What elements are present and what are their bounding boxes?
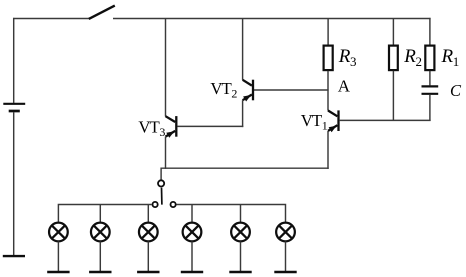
wire switch S2 pole drop [160, 168, 162, 181]
wire R1 top lead [429, 18, 431, 45]
wire lamp2 bottom lead [99, 241, 101, 271]
label VT3 [138, 118, 165, 139]
svg-text:1: 1 [453, 54, 460, 69]
lamp 6 [276, 223, 295, 242]
svg-text:R: R [338, 46, 351, 67]
switch S1 blade [89, 6, 115, 19]
resistor R3 [324, 46, 333, 71]
ground terminal lamp2 [89, 271, 111, 273]
svg-text:3: 3 [350, 54, 357, 69]
wire lamp4 bottom lead [191, 241, 193, 271]
switch S2 right contact circle [171, 202, 176, 207]
label R2 [403, 46, 422, 69]
wire lamp4 top drop [191, 205, 193, 222]
lamp 2 [91, 223, 110, 242]
wire capacitor bottom lead [429, 95, 431, 121]
wire right lamp rail [176, 205, 285, 222]
wire VT2 emitter drop to VT3 base [242, 100, 244, 127]
lamp 3 [139, 223, 158, 242]
transistor VT2 [243, 80, 253, 102]
transistor VT1 [328, 110, 339, 132]
wire left lamp rail [58, 205, 151, 222]
ground terminal lamp1 [47, 271, 69, 273]
ground terminal lamp5 [229, 271, 251, 273]
lamp 4 [183, 223, 202, 242]
capacitor C top plate [422, 85, 439, 87]
battery GB positive plate [3, 103, 25, 105]
wire lamp3 top drop [147, 205, 149, 222]
switch S2 blade [161, 188, 163, 205]
wire lamp3 bottom lead [147, 241, 149, 271]
ground terminal lamp6 [274, 271, 296, 273]
resistor R1 [425, 46, 434, 71]
label VT1 [301, 111, 328, 132]
svg-text:VT: VT [301, 111, 322, 130]
resistor R2 [389, 46, 398, 71]
svg-text:2: 2 [416, 54, 423, 69]
svg-text:R: R [441, 46, 454, 67]
svg-text:VT: VT [210, 79, 231, 98]
wire emitter junction horizontal [161, 167, 329, 169]
wire top rail left segment [13, 18, 89, 20]
svg-text:2: 2 [231, 87, 237, 101]
wire top rail right segment [113, 18, 431, 20]
wire battery top vertical [13, 18, 15, 103]
wire R3 top lead [327, 19, 329, 46]
label R1 [441, 46, 460, 69]
switch S2 left contact circle [153, 202, 158, 207]
svg-text:R: R [403, 46, 416, 67]
ground terminal lamp3 [137, 271, 159, 273]
label VT2 [210, 79, 237, 100]
wire VT2 base line to node A [254, 89, 329, 91]
ground terminal lamp4 [181, 271, 203, 273]
svg-text:A: A [338, 77, 351, 96]
wire lamp2 top drop [99, 205, 101, 222]
lamp 5 [231, 223, 250, 242]
wire VT3 base line [177, 125, 243, 127]
capacitor C bottom plate [422, 93, 439, 95]
wire R2 bottom lead [392, 71, 394, 121]
svg-text:C: C [450, 81, 462, 100]
svg-text:1: 1 [322, 119, 328, 133]
wire lamp5 bottom lead [240, 241, 242, 271]
label R3 [338, 46, 357, 69]
wire VT3 collector drop from rail [165, 19, 167, 117]
wire VT1 emitter drop [327, 131, 329, 169]
wire R1 bottom lead [429, 71, 431, 86]
wire lamp5 top drop [240, 205, 242, 222]
svg-text:3: 3 [159, 125, 165, 139]
switch S2 pole contact circle [158, 180, 164, 186]
wire lamp1 bottom lead [57, 241, 59, 271]
svg-text:VT: VT [138, 118, 159, 137]
wire lamp6 bottom lead [285, 241, 287, 271]
battery GB negative plate [9, 110, 20, 113]
wire battery bottom vertical [13, 112, 15, 255]
wire VT3 emitter drop [165, 137, 167, 169]
wire R3 bottom to VT1 collector (node A) [327, 71, 329, 111]
wire R2 top lead [392, 19, 394, 46]
wire VT1 base line [340, 119, 431, 121]
lamp 1 [49, 223, 68, 242]
battery bottom terminal bar [3, 255, 25, 257]
wire VT2 collector drop from rail [242, 19, 244, 80]
transistor VT3 [166, 116, 177, 138]
